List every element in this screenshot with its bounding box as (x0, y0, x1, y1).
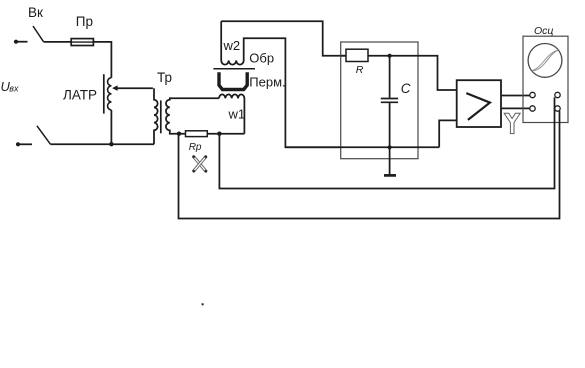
svg-text:R: R (356, 64, 364, 76)
svg-text:Rp: Rp (189, 142, 202, 153)
svg-text:w2: w2 (223, 38, 241, 53)
svg-text:Тр: Тр (157, 70, 172, 85)
svg-text:Вк: Вк (28, 5, 43, 20)
svg-text:ЛАТР: ЛАТР (63, 88, 97, 103)
svg-text:Перм.: Перм. (249, 74, 285, 89)
svg-text:вх: вх (9, 84, 19, 94)
svg-text:w1: w1 (228, 106, 246, 121)
svg-text:C: C (401, 81, 411, 96)
svg-text:Пр: Пр (76, 14, 93, 29)
svg-text:Осц: Осц (534, 25, 553, 37)
svg-text:Обр: Обр (249, 51, 274, 66)
